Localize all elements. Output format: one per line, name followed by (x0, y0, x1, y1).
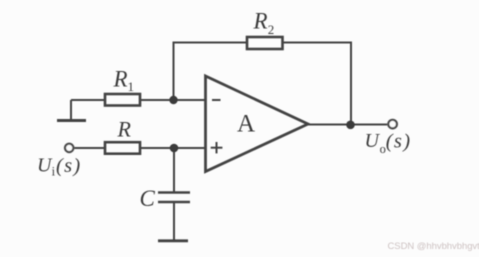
svg-text:C: C (140, 186, 156, 211)
svg-text:A: A (237, 111, 255, 138)
svg-text:R: R (113, 66, 128, 91)
svg-text:U: U (365, 130, 381, 152)
svg-text:(s): (s) (386, 131, 412, 153)
svg-text:R: R (253, 9, 268, 34)
svg-text:i: i (52, 164, 56, 178)
svg-text:CSDN @hhvbhvbhgvt: CSDN @hhvbhvbhgvt (388, 241, 479, 252)
svg-text:2: 2 (268, 22, 275, 37)
svg-text:1: 1 (128, 79, 135, 94)
svg-text:U: U (37, 154, 53, 176)
svg-text:R: R (117, 117, 132, 142)
svg-text:(s): (s) (56, 155, 82, 177)
